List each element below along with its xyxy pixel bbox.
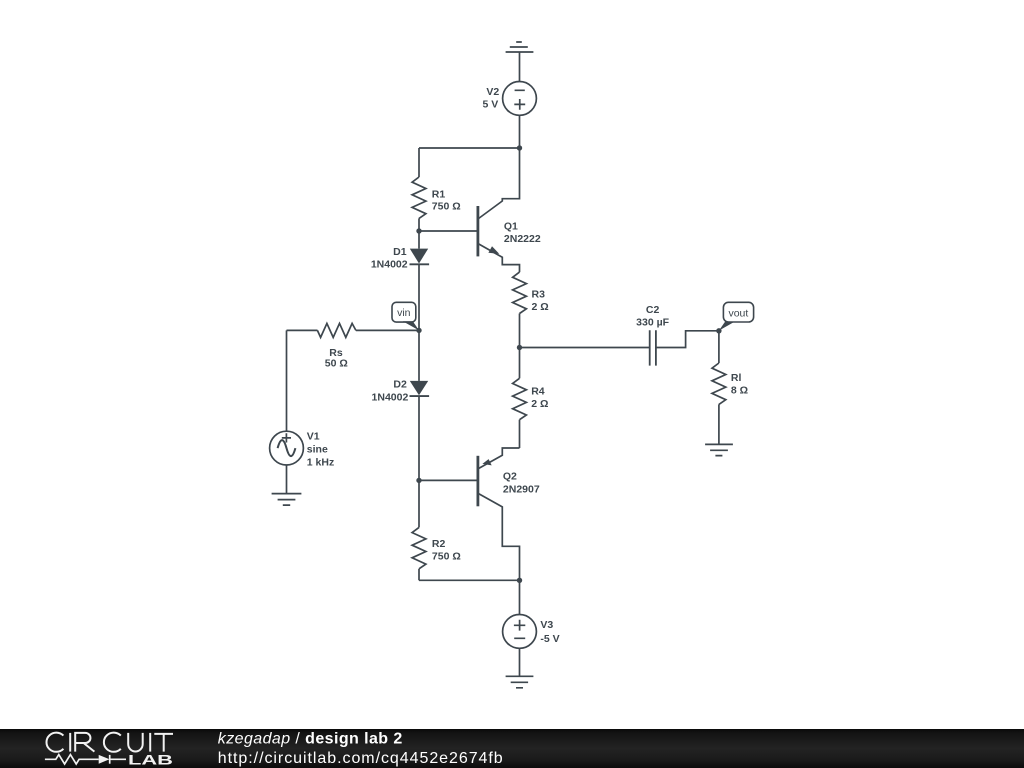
svg-text:1N4002: 1N4002 [372, 391, 409, 403]
svg-text:kzegadap / design lab 2: kzegadap / design lab 2 [218, 731, 403, 748]
svg-text:vin: vin [397, 307, 411, 319]
svg-text:2N2222: 2N2222 [504, 233, 541, 245]
svg-text:330 µF: 330 µF [636, 316, 669, 328]
svg-text:R4: R4 [531, 385, 545, 397]
svg-text:750 Ω: 750 Ω [432, 201, 461, 213]
svg-text:1N4002: 1N4002 [371, 259, 408, 271]
svg-text:2 Ω: 2 Ω [531, 398, 548, 410]
svg-text:1 kHz: 1 kHz [307, 457, 334, 469]
svg-text:C2: C2 [646, 304, 660, 316]
svg-text:2 Ω: 2 Ω [532, 301, 549, 313]
svg-text:V2: V2 [486, 86, 499, 98]
svg-text:V3: V3 [540, 619, 553, 631]
svg-text:vout: vout [728, 307, 748, 319]
svg-text:Q2: Q2 [503, 471, 517, 483]
svg-text:50 Ω: 50 Ω [325, 357, 348, 369]
svg-text:750 Ω: 750 Ω [432, 551, 461, 563]
svg-text:Rl: Rl [731, 372, 742, 384]
svg-text:D2: D2 [393, 378, 407, 390]
svg-text:sine: sine [307, 444, 328, 456]
svg-text:-5 V: -5 V [540, 633, 559, 645]
svg-text:R2: R2 [432, 538, 446, 550]
svg-text:R1: R1 [432, 189, 446, 201]
svg-text:2N2907: 2N2907 [503, 483, 540, 495]
svg-text:http://circuitlab.com/cq4452e2: http://circuitlab.com/cq4452e2674fb [218, 750, 504, 767]
svg-text:LAB: LAB [128, 752, 173, 767]
svg-text:D1: D1 [393, 246, 407, 258]
svg-text:R3: R3 [532, 288, 546, 300]
svg-text:5 V: 5 V [483, 98, 499, 110]
svg-text:8 Ω: 8 Ω [731, 384, 748, 396]
svg-text:Q1: Q1 [504, 221, 518, 233]
svg-text:V1: V1 [307, 431, 320, 443]
